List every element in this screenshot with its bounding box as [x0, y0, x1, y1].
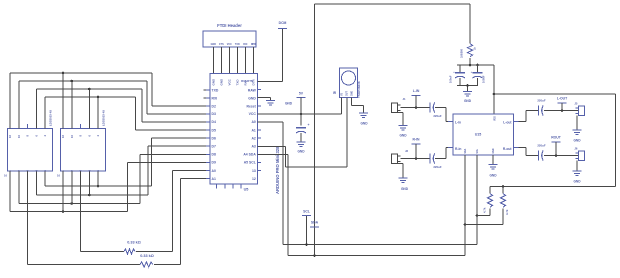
svg-text:U15: U15 — [475, 133, 482, 137]
svg-text:D7: D7 — [212, 145, 216, 149]
svg-text:1: 1 — [8, 170, 12, 172]
svg-text:TXD: TXD — [236, 79, 240, 86]
svg-text:A5 SCL: A5 SCL — [244, 161, 256, 165]
svg-text:GND: GND — [212, 78, 216, 86]
svg-text:GND: GND — [285, 102, 293, 106]
svg-text:GND: GND — [248, 96, 256, 100]
svg-text:J1: J1 — [403, 97, 407, 101]
svg-text:0.33 kΩ: 0.33 kΩ — [140, 254, 154, 258]
svg-text:10: 10 — [70, 135, 74, 138]
svg-text:A2: A2 — [251, 136, 255, 140]
svg-text:5: 5 — [43, 170, 47, 172]
svg-text:4: 4 — [43, 135, 47, 137]
svg-text:5: 5 — [96, 170, 100, 172]
svg-text:R13•RTN: R13•RTN — [241, 79, 253, 83]
svg-text:IR: IR — [333, 91, 337, 95]
svg-text:RAW: RAW — [248, 88, 257, 92]
svg-text:VDD: VDD — [495, 116, 497, 121]
svg-text:1: 1 — [61, 170, 65, 172]
svg-text:10: 10 — [17, 135, 21, 138]
svg-text:GND: GND — [489, 174, 497, 178]
svg-text:16: 16 — [61, 135, 65, 138]
svg-text:LDS5053 4X: LDS5053 4X — [49, 110, 53, 126]
svg-text:GND: GND — [401, 187, 409, 191]
svg-text:2: 2 — [17, 170, 21, 172]
svg-text:L-in: L-in — [455, 120, 461, 124]
svg-text:4: 4 — [96, 135, 100, 137]
svg-text:A3: A3 — [251, 145, 255, 149]
svg-text:GND: GND — [220, 78, 224, 86]
svg-text:4.7k: 4.7k — [483, 207, 487, 213]
svg-text:2: 2 — [70, 170, 74, 172]
svg-text:GND: GND — [573, 180, 581, 184]
svg-text:FTDI Header: FTDI Header — [217, 23, 242, 28]
svg-text:Reset: Reset — [247, 104, 257, 108]
svg-text:3: 3 — [26, 170, 30, 172]
svg-text:A1: A1 — [251, 128, 255, 132]
svg-text:100/500: 100/500 — [461, 48, 464, 58]
svg-text:OUT: OUT — [347, 91, 349, 96]
svg-text:J6: J6 — [574, 147, 578, 151]
svg-text:J2: J2 — [405, 149, 409, 153]
svg-text:GND: GND — [493, 148, 495, 153]
svg-text:GND: GND — [464, 99, 472, 103]
svg-text:LDS5053 4X: LDS5053 4X — [102, 110, 106, 126]
svg-text:TXD: TXD — [235, 43, 240, 46]
svg-text:12: 12 — [252, 177, 256, 181]
svg-text:A0: A0 — [251, 120, 255, 124]
svg-text:13: 13 — [252, 169, 256, 173]
svg-text:6: 6 — [34, 135, 38, 137]
svg-text:220uF: 220uF — [537, 144, 546, 148]
svg-text:4: 4 — [34, 170, 38, 172]
svg-text:A0: A0 — [212, 169, 216, 173]
svg-text:D6: D6 — [212, 136, 216, 140]
svg-text:R-IN: R-IN — [413, 138, 421, 142]
svg-text:VS: VS — [342, 92, 344, 96]
svg-text:16: 16 — [4, 174, 7, 178]
svg-text:4: 4 — [87, 170, 91, 172]
svg-text:GND: GND — [360, 122, 368, 126]
svg-text:0.33 kΩ: 0.33 kΩ — [127, 241, 141, 245]
svg-text:6: 6 — [87, 135, 91, 137]
svg-text:220uF: 220uF — [433, 114, 442, 118]
svg-text:SCL: SCL — [477, 148, 479, 153]
svg-text:GND: GND — [399, 134, 407, 138]
svg-text:100uF: 100uF — [449, 75, 453, 83]
svg-text:TSOP38238: TSOP38238 — [357, 81, 361, 98]
svg-text:ROUT: ROUT — [551, 136, 562, 140]
svg-text:RXI: RXI — [212, 96, 218, 100]
svg-text:+: + — [308, 123, 310, 127]
svg-text:+: + — [471, 70, 473, 74]
svg-text:A4 SDA: A4 SDA — [243, 153, 256, 157]
svg-text:GND: GND — [352, 91, 354, 96]
svg-text:GND: GND — [297, 150, 305, 154]
svg-text:GND: GND — [573, 139, 581, 143]
svg-text:J5: J5 — [574, 102, 578, 106]
svg-text:100uF: 100uF — [482, 75, 486, 83]
svg-text:D4: D4 — [212, 120, 216, 124]
svg-text:D3: D3 — [212, 112, 216, 116]
svg-text:3: 3 — [79, 170, 83, 172]
svg-text:GND: GND — [211, 43, 217, 46]
svg-text:RXI: RXI — [243, 43, 247, 46]
svg-text:VCC: VCC — [249, 112, 257, 116]
svg-text:SCL: SCL — [303, 210, 310, 214]
svg-text:A1: A1 — [212, 177, 216, 181]
svg-text:220uF: 220uF — [433, 165, 442, 169]
svg-text:R-in: R-in — [455, 147, 461, 151]
svg-text:L-OUT: L-OUT — [557, 97, 568, 101]
svg-text:D2: D2 — [212, 104, 216, 108]
svg-text:U5: U5 — [244, 188, 249, 192]
svg-text:DCM: DCM — [279, 21, 287, 25]
svg-text:TXD: TXD — [212, 88, 219, 92]
svg-text:SDA: SDA — [311, 221, 319, 225]
svg-text:D5: D5 — [212, 128, 216, 132]
svg-text:VCC: VCC — [228, 78, 232, 85]
svg-text:CTS: CTS — [219, 43, 224, 46]
svg-text:1k: 1k — [474, 47, 477, 50]
svg-text:D9: D9 — [212, 161, 216, 165]
svg-text:SDA: SDA — [464, 148, 467, 153]
svg-text:R-out: R-out — [503, 147, 513, 151]
svg-text:VCC: VCC — [227, 43, 232, 46]
svg-text:16: 16 — [57, 174, 60, 178]
svg-text:L-IN: L-IN — [413, 89, 420, 93]
svg-text:16: 16 — [8, 135, 12, 138]
svg-text:L-out: L-out — [503, 120, 512, 124]
svg-text:4.7k: 4.7k — [505, 209, 509, 215]
svg-text:+: + — [453, 70, 455, 74]
svg-text:ARDUINO PRO Mini 328: ARDUINO PRO Mini 328 — [275, 146, 280, 194]
svg-text:220uF: 220uF — [537, 99, 546, 103]
svg-text:8: 8 — [26, 135, 30, 137]
svg-text:8: 8 — [79, 135, 83, 137]
svg-text:5V: 5V — [299, 92, 304, 96]
svg-text:D8: D8 — [212, 153, 216, 157]
